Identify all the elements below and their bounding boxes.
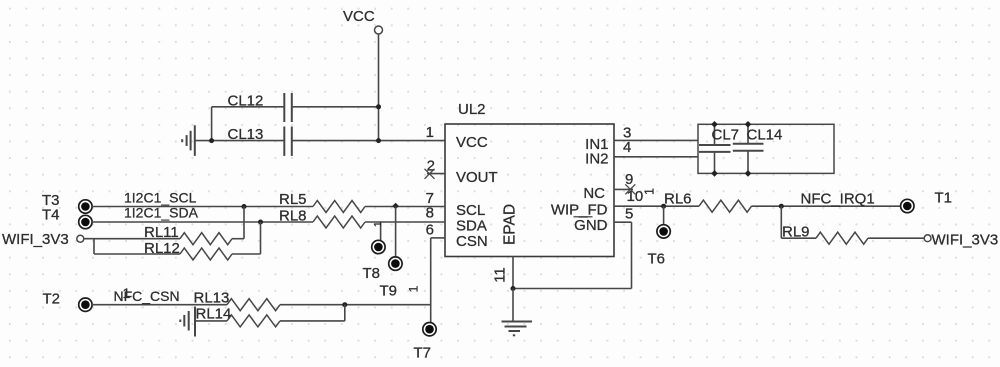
svg-text:RL11: RL11 [144, 224, 179, 241]
svg-text:1: 1 [643, 188, 657, 195]
node SCL-RL11 junction [242, 204, 247, 209]
terminal T6 [657, 225, 670, 238]
svg-text:WIFI_3V3: WIFI_3V3 [932, 231, 999, 248]
svg-text:EPAD: EPAD [502, 204, 519, 245]
no-connect X on pin 9 [625, 184, 635, 194]
svg-text:1I2C1_SCL: 1I2C1_SCL [124, 190, 197, 206]
node CL7 top [711, 121, 718, 128]
wire T6 drop [663, 206, 665, 225]
svg-text:WIP_FD: WIP_FD [551, 202, 608, 219]
wire T3 to RL5 [92, 206, 313, 208]
capacitor CL12 [228, 93, 292, 123]
svg-text:T4: T4 [42, 207, 60, 224]
svg-text:RL8: RL8 [279, 208, 307, 225]
power symbol VCC [343, 8, 383, 34]
wire CL12 right segment [292, 106, 379, 108]
wire T2 to RL13 [92, 304, 227, 306]
node CL13 ground-branch junction [209, 138, 214, 143]
node CL13-VCC junction [376, 138, 381, 143]
node CL14 top [745, 121, 752, 128]
svg-text:T2: T2 [43, 291, 61, 308]
wire RL14 up to NFC_CSN junction [280, 305, 345, 321]
node NFC_IRQ-RL9 junction [779, 204, 784, 209]
terminal T4 [79, 215, 92, 228]
wire junction to ground [512, 289, 514, 322]
wire RL9 left lead [781, 237, 816, 239]
node CL12-VCC junction [376, 104, 381, 109]
terminal T2 [79, 298, 92, 311]
svg-text:1: 1 [123, 285, 131, 301]
resistor RL13 [194, 290, 281, 311]
wire RL13 to CSN wire [280, 304, 431, 306]
ground (rotated) at RL14 [180, 307, 195, 337]
wire WIFI_3V3 to RL11 [84, 238, 180, 240]
svg-text:11: 11 [492, 267, 509, 283]
pin 5 GND name (with overbar) [574, 217, 608, 234]
terminal T3 [79, 200, 92, 213]
wire CL12 left segment [212, 107, 284, 141]
svg-text:GND: GND [574, 217, 608, 234]
capacitor CL13 [228, 126, 292, 156]
svg-text:1I2C1_SDA: 1I2C1_SDA [124, 205, 199, 221]
wire pin 11 EPAD stub [512, 257, 514, 289]
no-connect X on pin 2 [425, 169, 435, 179]
svg-text:RL6: RL6 [664, 190, 692, 207]
svg-text:RL5: RL5 [279, 191, 307, 208]
resistor RL5 [279, 191, 365, 213]
wire VCC vertical drop [378, 34, 380, 141]
svg-text:T1: T1 [935, 189, 953, 206]
svg-text:WIFI_3V3: WIFI_3V3 [2, 231, 69, 248]
wire CSN down to NFC_CSN row [430, 238, 432, 323]
terminal T7 [423, 323, 436, 336]
power symbol WIFI_3V3 (left) [2, 231, 84, 248]
antenna loop [698, 124, 834, 173]
terminal T8 [372, 240, 385, 253]
svg-text:VCC: VCC [456, 134, 488, 151]
pin 2 VOUT no-connect stub [427, 173, 445, 175]
wire ground to RL14 [195, 320, 227, 322]
node SCL-T9 junction [392, 203, 399, 210]
svg-text:T7: T7 [414, 345, 432, 362]
wire RL5 to pin 7 [365, 206, 445, 208]
svg-text:1: 1 [372, 221, 384, 227]
resistor RL11 [144, 224, 232, 245]
node T6 junction [661, 204, 666, 209]
wire pin 4 IN2 [614, 156, 698, 158]
terminal T9 [389, 257, 402, 270]
svg-text:VOUT: VOUT [456, 169, 498, 186]
node CL7 bottom [711, 170, 718, 177]
svg-text:UL2: UL2 [458, 101, 486, 118]
wire pin 3 IN1 [614, 139, 698, 141]
ground under EPAD [502, 322, 533, 336]
svg-text:CL14: CL14 [747, 127, 783, 144]
resistor RL6 [664, 190, 752, 212]
capacitor CL7 [699, 124, 739, 173]
capacitor CL14 [733, 124, 783, 173]
resistor RL8 [279, 208, 365, 229]
svg-text:5: 5 [625, 205, 633, 222]
pin 9 NC no-connect stub [614, 188, 633, 190]
wire RL8 to pin 8 [365, 221, 445, 223]
node NFC_CSN junction [342, 302, 347, 307]
wire SDA to T8 [380, 222, 382, 241]
svg-text:CL13: CL13 [228, 126, 264, 143]
resistor RL12 [144, 240, 232, 260]
svg-text:1: 1 [426, 124, 434, 141]
ground (rotated) at CL13 input [182, 125, 195, 156]
svg-text:NC: NC [583, 185, 605, 202]
power symbol WIFI_3V3 (right) [924, 231, 998, 248]
svg-text:VCC: VCC [343, 8, 375, 25]
wire CL13 left segment [195, 140, 284, 142]
wire RL6 to T1 [752, 205, 901, 207]
wire pin 10 to RL6 [614, 205, 699, 207]
svg-text:T8: T8 [363, 265, 381, 282]
svg-text:1: 1 [407, 285, 421, 292]
svg-text:NFC_IRQ1: NFC_IRQ1 [801, 191, 875, 208]
resistor RL9 [782, 224, 868, 245]
svg-text:RL13: RL13 [194, 290, 230, 307]
wire RL9 to WIFI_3V3 [868, 237, 924, 239]
wire RL9 drop [780, 206, 782, 238]
svg-text:RL12: RL12 [144, 240, 180, 257]
wire SCL to T9 [395, 207, 397, 258]
svg-text:4: 4 [623, 139, 631, 156]
wire RL11 up to SCL [232, 207, 244, 239]
wire T4 to RL8 [92, 221, 313, 223]
IC UL2 body [445, 124, 614, 257]
svg-text:SDA: SDA [456, 218, 487, 235]
svg-text:6: 6 [426, 222, 434, 239]
node EPAD-GND junction [511, 286, 516, 291]
svg-text:RL14: RL14 [196, 306, 232, 323]
svg-text:IN2: IN2 [585, 151, 608, 168]
node CL14 bottom [745, 170, 752, 177]
wire WIFI_3V3 branch down to RL12 [94, 239, 180, 254]
svg-text:T6: T6 [648, 251, 666, 268]
wire pin 5 GND path [513, 222, 632, 288]
svg-text:CL7: CL7 [712, 127, 740, 144]
svg-text:SCL: SCL [456, 202, 485, 219]
pin 6 CSN stub [431, 237, 445, 239]
svg-text:CSN: CSN [456, 233, 488, 250]
wire RL12 up to SDA [232, 222, 261, 254]
svg-text:T9: T9 [380, 283, 398, 300]
resistor RL14 [196, 306, 281, 327]
terminal T1 [901, 199, 914, 212]
wire CL13 right segment to pin 1 [292, 140, 445, 142]
node SDA-RL12 junction [258, 220, 263, 225]
svg-text:CL12: CL12 [228, 93, 264, 110]
